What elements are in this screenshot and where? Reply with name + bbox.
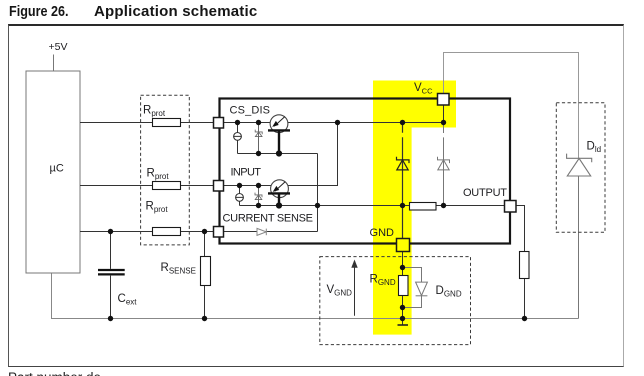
svg-text:CURRENT SENSE: CURRENT SENSE <box>223 213 314 225</box>
svg-text:Cext: Cext <box>118 293 138 307</box>
svg-text:µC: µC <box>50 163 64 175</box>
svg-text:Rprot: Rprot <box>146 201 169 215</box>
svg-text:CS_DIS: CS_DIS <box>230 105 271 117</box>
svg-text:DGND: DGND <box>436 285 462 299</box>
svg-text:GND: GND <box>370 227 395 239</box>
svg-text:INPUT: INPUT <box>231 167 262 179</box>
svg-text:Rprot: Rprot <box>147 168 170 182</box>
svg-text:OUTPUT: OUTPUT <box>463 187 507 199</box>
svg-text:+5V: +5V <box>49 41 68 53</box>
svg-text:RSENSE: RSENSE <box>161 262 196 276</box>
svg-text:Rprot: Rprot <box>143 105 166 119</box>
svg-text:VGND: VGND <box>327 284 353 298</box>
svg-text:Dld: Dld <box>587 141 602 155</box>
